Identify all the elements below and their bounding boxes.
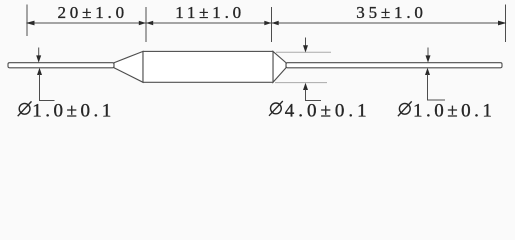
body leader line (stem + bend) xyxy=(306,89,322,100)
diameter symbol right (circle + slash) xyxy=(398,101,412,116)
arrowheads at x=271.5 (bowtie) xyxy=(264,21,271,26)
extension line third (x=271.5) xyxy=(271,7,273,42)
svg-text:4.0±0.1: 4.0±0.1 xyxy=(285,101,371,121)
right lead arrow down (stem) xyxy=(427,48,429,57)
body arrow up (head) xyxy=(303,83,308,90)
body arrow down (head) xyxy=(303,45,308,52)
svg-text:35±1.0: 35±1.0 xyxy=(356,3,426,22)
extension line second (x=146) xyxy=(145,7,147,42)
diameter symbol left (circle + slash) xyxy=(18,101,32,116)
fuse body xyxy=(143,51,273,82)
extension line left (x=27) xyxy=(26,5,28,37)
right lead wire xyxy=(286,63,502,68)
right lead arrow up (head) xyxy=(425,68,430,75)
right lead arrow down (head) xyxy=(426,55,431,62)
left taper cone xyxy=(114,51,143,82)
body-diameter extension line top (light) xyxy=(276,51,331,53)
left lead arrow down (head) xyxy=(36,55,41,62)
svg-text:11±1.0: 11±1.0 xyxy=(175,3,245,22)
extension line right (x=505.5) xyxy=(505,5,507,43)
left lead arrow down (stem) xyxy=(38,48,40,57)
svg-text:1.0±0.1: 1.0±0.1 xyxy=(32,101,114,121)
arrowheads at x=146 (bowtie) xyxy=(139,21,146,26)
body arrow down (stem) xyxy=(305,38,307,47)
diameter symbol middle (circle + slash) xyxy=(269,101,283,116)
svg-text:1.0±0.1: 1.0±0.1 xyxy=(413,101,495,121)
dimension line (top, horizontal) xyxy=(27,22,506,24)
arrowhead right end, pointing right xyxy=(498,21,507,26)
right taper cone xyxy=(273,51,286,82)
left lead wire xyxy=(8,63,114,68)
svg-text:20±1.0: 20±1.0 xyxy=(58,3,128,22)
body-diameter extension line bottom (light) xyxy=(275,82,327,84)
right lead leader line (stem + bend) xyxy=(428,74,446,100)
left lead leader line (stem + bend) xyxy=(40,74,55,100)
left lead arrow up (head) xyxy=(37,68,42,75)
arrowhead left end, pointing left xyxy=(26,21,35,26)
